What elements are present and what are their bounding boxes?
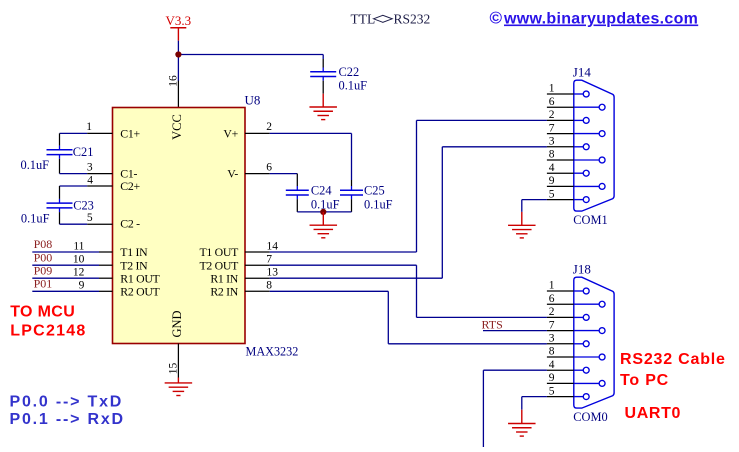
pin 7 wire T2 OUT <box>245 264 270 266</box>
J18 pin 1 stub <box>547 290 574 292</box>
svg-text:P0.0 --> TxD: P0.0 --> TxD <box>10 394 124 411</box>
svg-text:U8: U8 <box>245 93 261 108</box>
J14 pin 1 stub <box>547 93 574 95</box>
svg-text:3: 3 <box>549 333 555 345</box>
J14 pin 1 circle <box>583 91 589 97</box>
svg-text:0.1uF: 0.1uF <box>21 158 50 172</box>
svg-text:C24: C24 <box>311 183 332 197</box>
pin 6 wire <box>245 173 270 175</box>
svg-text:P0.1 --> RxD: P0.1 --> RxD <box>10 411 125 428</box>
svg-text:9: 9 <box>549 175 555 187</box>
J18 pin 6 stub <box>547 303 574 305</box>
svg-text:14: 14 <box>267 240 279 252</box>
svg-text:R2 IN: R2 IN <box>210 284 238 298</box>
svg-text:GND: GND <box>170 310 184 337</box>
wire pin15 to ground <box>177 378 179 383</box>
J14 pin 9 stub <box>547 185 574 187</box>
wire net P00 <box>32 264 99 266</box>
svg-text:3: 3 <box>87 161 93 173</box>
capacitor C24 <box>286 183 340 212</box>
svg-text:9: 9 <box>79 280 85 292</box>
J18 pin 4 stub <box>547 369 574 371</box>
svg-text:J14: J14 <box>573 65 592 80</box>
svg-text:11: 11 <box>73 240 84 252</box>
J18 pin 5 stub <box>547 396 574 398</box>
J18 pin 9 circle <box>599 380 605 386</box>
power symbol V3.3 <box>166 13 192 41</box>
svg-text:1: 1 <box>549 280 555 292</box>
svg-text:C22: C22 <box>339 65 360 79</box>
J14 pin 3 stub <box>547 146 574 148</box>
J14 pin 4 stub <box>547 172 574 174</box>
J18 pin 7 circle <box>599 328 605 334</box>
J18 pin 8 circle <box>599 354 605 360</box>
connector J18 body <box>574 277 614 408</box>
svg-text:0.1uF: 0.1uF <box>364 198 393 212</box>
J18 pin 3 stub <box>547 343 574 345</box>
J18 pin 9 stub <box>547 382 574 384</box>
svg-text:C25: C25 <box>364 183 385 197</box>
wire R2IN down to J18 pin3 <box>387 291 389 344</box>
junction at V3.3 node <box>175 51 181 57</box>
ground under C22 <box>309 107 337 120</box>
svg-text:1: 1 <box>549 83 555 95</box>
svg-text:5: 5 <box>87 212 93 224</box>
wire net P09 <box>32 277 99 279</box>
svg-text:C23: C23 <box>73 198 94 212</box>
ground under J18 <box>508 424 536 437</box>
J14 pin 8 stub <box>547 159 574 161</box>
svg-text:4: 4 <box>549 162 555 174</box>
svg-text:12: 12 <box>73 267 85 279</box>
wire J18 pin4 down off-page <box>483 369 547 371</box>
ground under U8 <box>165 383 193 396</box>
svg-text:16: 16 <box>167 75 179 87</box>
svg-text:C21: C21 <box>73 145 94 159</box>
connector J14 body <box>574 80 614 211</box>
svg-text:UART0: UART0 <box>625 405 682 422</box>
J14 pin 8 circle <box>599 157 605 163</box>
svg-text:RS232: RS232 <box>394 12 431 27</box>
svg-text:2: 2 <box>549 306 555 318</box>
svg-text:8: 8 <box>549 346 555 358</box>
J14 pin 7 stub <box>547 133 574 135</box>
svg-text:0.1uF: 0.1uF <box>339 79 368 93</box>
svg-text:MAX3232: MAX3232 <box>246 345 299 359</box>
svg-text:7: 7 <box>266 254 272 266</box>
svg-text:3: 3 <box>549 136 555 148</box>
svg-text:6: 6 <box>549 293 555 305</box>
pin 3 wire <box>60 173 88 175</box>
J14 pin 6 circle <box>599 104 605 110</box>
J14 pin 4 circle <box>583 170 589 176</box>
wire T2OUT down to J18 pin2 <box>416 265 418 317</box>
capacitor C25 <box>340 180 393 212</box>
svg-text:LPC2148: LPC2148 <box>10 323 86 340</box>
svg-text:TO MCU: TO MCU <box>10 304 75 321</box>
svg-text:9: 9 <box>549 372 555 384</box>
pin wire 11 <box>99 251 113 253</box>
J14 pin 6 stub <box>547 106 574 108</box>
svg-text:6: 6 <box>549 96 555 108</box>
svg-text:R1 IN: R1 IN <box>210 271 238 285</box>
svg-text:RS232 Cable: RS232 Cable <box>620 351 726 368</box>
svg-text:T1 OUT: T1 OUT <box>200 245 240 259</box>
svg-text:10: 10 <box>73 254 85 266</box>
svg-text:V3.3: V3.3 <box>166 13 192 28</box>
J18 pin 2 circle <box>583 314 589 320</box>
svg-text:www.binaryupdates.com: www.binaryupdates.com <box>503 11 698 28</box>
svg-text:1: 1 <box>86 121 92 133</box>
wire V- down to C24 <box>296 174 298 186</box>
svg-text:C2+: C2+ <box>120 179 140 193</box>
ground under J14 <box>508 225 536 238</box>
capacitor C22 <box>310 55 367 94</box>
wire R1IN up to J14 pin3 <box>441 147 443 278</box>
svg-text:15: 15 <box>167 363 179 375</box>
wire junction to ground <box>322 212 324 225</box>
J14 pin 5 stub <box>547 199 574 201</box>
svg-text:13: 13 <box>267 267 279 279</box>
svg-text:V-: V- <box>227 167 238 181</box>
svg-text:To PC: To PC <box>620 372 669 389</box>
pin wire 12 <box>99 277 113 279</box>
svg-text:J18: J18 <box>573 262 591 277</box>
pin 13 wire R1 IN <box>245 277 270 279</box>
IC U8 MAX3232 body <box>113 108 246 344</box>
capacitor C23 <box>21 186 94 225</box>
svg-text:P08: P08 <box>34 237 53 251</box>
pin 8 wire R2 IN <box>245 290 270 292</box>
pin 14 wire T1 OUT <box>245 251 270 253</box>
svg-text:T2 IN: T2 IN <box>120 258 148 272</box>
svg-text:RTS: RTS <box>482 317 503 331</box>
J14 pin 3 circle <box>583 144 589 150</box>
svg-text:8: 8 <box>549 149 555 161</box>
svg-text:7: 7 <box>549 122 555 134</box>
svg-text:P09: P09 <box>34 263 53 277</box>
svg-text:4: 4 <box>549 359 555 371</box>
J14 pin 2 stub <box>547 119 574 121</box>
svg-text:C1+: C1+ <box>120 127 140 141</box>
svg-text:COM0: COM0 <box>573 410 607 424</box>
wire C24-C25 common <box>297 211 351 213</box>
J18 pin 7 stub <box>547 330 574 332</box>
svg-text:TTL: TTL <box>351 12 376 27</box>
pin 15 wire <box>177 344 179 378</box>
pin 5 wire <box>60 223 88 225</box>
svg-text:C2 -: C2 - <box>120 216 140 230</box>
J14 pin 2 circle <box>583 117 589 123</box>
J18 pin 3 circle <box>583 341 589 347</box>
J14 pin 9 circle <box>599 183 605 189</box>
wire V+ down to C25 <box>351 133 353 180</box>
pin 2 wire <box>245 132 270 134</box>
wire V3.3 to junction <box>177 41 179 55</box>
svg-text:©: © <box>490 9 503 28</box>
pin wire 10 <box>99 264 113 266</box>
J18 pin 8 stub <box>547 356 574 358</box>
pin 16 wire <box>177 81 179 108</box>
pin 1 wire <box>60 132 88 134</box>
pin 4 wire <box>60 185 88 187</box>
svg-text:5: 5 <box>549 188 555 200</box>
wire C22 to ground <box>322 94 324 107</box>
svg-text:0.1uF: 0.1uF <box>21 211 50 225</box>
J18 pin 6 circle <box>599 301 605 307</box>
wire T1OUT up to J14 pin2 <box>416 120 418 252</box>
wire net P08 <box>32 251 99 253</box>
svg-text:2: 2 <box>549 109 555 121</box>
wire junction to C22 <box>178 54 323 56</box>
svg-text:2: 2 <box>266 121 272 133</box>
capacitor C21 <box>21 133 94 173</box>
svg-text:COM1: COM1 <box>573 213 607 227</box>
J18 pin 4 circle <box>583 367 589 373</box>
wire J14 pin5 to ground <box>522 199 547 201</box>
svg-text:7: 7 <box>549 319 555 331</box>
svg-text:V+: V+ <box>223 127 238 141</box>
J18 pin 1 circle <box>583 288 589 294</box>
svg-text:T2 OUT: T2 OUT <box>200 258 240 272</box>
svg-text:P01: P01 <box>34 277 53 291</box>
J18 pin 5 circle <box>583 394 589 400</box>
junction C24/C25 ground node <box>320 209 326 215</box>
svg-text:VCC: VCC <box>170 114 184 140</box>
J14 pin 5 circle <box>583 197 589 203</box>
svg-text:T1 IN: T1 IN <box>120 245 148 259</box>
svg-text:R2 OUT: R2 OUT <box>120 284 160 298</box>
ground under C24/C25 <box>310 225 338 238</box>
title TTL-RS232 <box>351 12 431 27</box>
wire net P01 <box>32 290 99 292</box>
J18 pin 2 stub <box>547 316 574 318</box>
J14 pin 7 circle <box>599 131 605 137</box>
svg-text:5: 5 <box>549 385 555 397</box>
wire junction down to pin16 <box>177 55 179 82</box>
svg-text:R1 OUT: R1 OUT <box>120 271 160 285</box>
wire net RTS <box>483 330 547 332</box>
svg-text:P00: P00 <box>34 250 53 264</box>
svg-text:8: 8 <box>266 280 272 292</box>
pin wire 9 <box>99 290 113 292</box>
svg-text:6: 6 <box>266 161 272 173</box>
svg-text:0.1uF: 0.1uF <box>311 198 340 212</box>
wire J18 pin5 to ground <box>522 396 547 398</box>
svg-text:4: 4 <box>87 174 93 186</box>
